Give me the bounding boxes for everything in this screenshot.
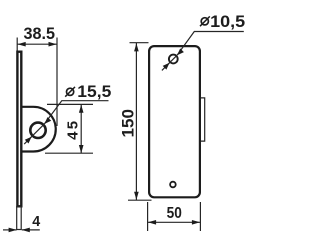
dimension 45 line xyxy=(80,105,82,154)
dimension 38.5 line xyxy=(18,43,57,45)
dimension 45 extension line top xyxy=(47,103,93,105)
dimension 4 line left tail xyxy=(3,229,17,231)
dimension 38.5 arrow left xyxy=(18,42,26,47)
boss hole diameter 15.5 xyxy=(30,123,45,138)
dimension 150 extension line bottom xyxy=(128,199,152,201)
svg-text:4: 4 xyxy=(32,214,40,230)
dimension 38.5 arrow right xyxy=(49,42,57,47)
dimension 150 line xyxy=(135,43,137,200)
boss hole arrow upper xyxy=(44,117,51,124)
dimension 150 extension line top xyxy=(130,42,149,44)
dimension 50 extension line right xyxy=(199,202,201,231)
side view plate upper thick section xyxy=(17,52,21,207)
label diameter 15,5 xyxy=(65,83,111,101)
dimension 150 arrow top xyxy=(134,43,139,51)
dimension 45 extension line bottom xyxy=(45,152,93,154)
dimension 50 line xyxy=(148,221,200,223)
dimension 50 extension line left xyxy=(147,202,149,231)
top hole leader to label xyxy=(177,32,244,56)
side view plate lower thin section xyxy=(17,207,22,230)
top hole arrow lower xyxy=(163,63,170,70)
svg-text:45: 45 xyxy=(65,121,82,140)
svg-text:50: 50 xyxy=(167,205,182,222)
boss hole leader to label xyxy=(44,101,108,124)
dimension 4 arrow left xyxy=(9,228,17,233)
front view top hole diameter 10.5 xyxy=(169,55,178,64)
svg-text:38.5: 38.5 xyxy=(24,25,56,43)
svg-text:15,5: 15,5 xyxy=(77,83,111,101)
svg-text:10,5: 10,5 xyxy=(210,13,245,31)
dimension 4 arrow right xyxy=(22,228,30,233)
front view bottom hole xyxy=(170,182,176,188)
dimension 38.5 extension line right xyxy=(56,38,58,127)
boss hole arrow lower xyxy=(25,137,32,144)
side view boss (D-shaped lug) xyxy=(22,107,56,152)
boss hole diameter line through circle xyxy=(24,124,44,144)
dimension 4 line right tail xyxy=(22,229,40,231)
top hole arrow upper xyxy=(177,48,184,55)
dimension 50 arrow right xyxy=(192,220,200,225)
label diameter 10,5 xyxy=(200,13,245,31)
dimension 50 arrow left xyxy=(148,220,156,225)
front view side tab xyxy=(201,98,205,141)
dimension 38.5 extension line left xyxy=(16,38,18,51)
dimension 45 arrow bottom xyxy=(79,145,84,153)
front view plate rounded rectangle xyxy=(149,46,200,197)
svg-text:150: 150 xyxy=(120,109,138,138)
top hole diameter line through circle xyxy=(162,55,177,70)
dimension 45 arrow top xyxy=(79,105,84,113)
dimension 150 arrow bottom xyxy=(134,192,139,200)
